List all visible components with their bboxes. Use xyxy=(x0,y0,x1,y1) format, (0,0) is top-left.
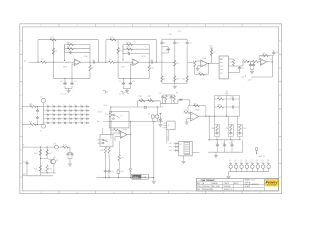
wire feedback top stage2 xyxy=(123,44,149,46)
wire caps to ground stage1 xyxy=(64,86,66,89)
wire R22 down xyxy=(68,146,71,148)
svg-text:Q7: Q7 xyxy=(251,160,253,162)
ground stage1 xyxy=(67,91,71,93)
capacitor C22 right of pots xyxy=(162,95,164,96)
svg-text:ELECTRONICS: ELECTRONICS xyxy=(267,185,276,187)
wire pots rail xyxy=(138,100,161,102)
capacitor C27b left small xyxy=(26,161,28,163)
svg-text:R23: R23 xyxy=(34,153,37,155)
capacitor C18b top right xyxy=(273,50,275,51)
resistor R9 xyxy=(117,48,119,54)
wire right pair1 verticals xyxy=(214,125,216,137)
op-amp U4A xyxy=(120,131,127,138)
svg-text:R40: R40 xyxy=(182,79,185,81)
svg-text:MUTE: MUTE xyxy=(98,112,103,114)
capacitor C33 bank xyxy=(230,144,233,148)
resistor R37 grid row1 xyxy=(218,98,224,100)
net stub lower left xyxy=(22,146,27,148)
wire box risers xyxy=(166,130,168,141)
wire verticals into U6 xyxy=(166,136,168,144)
svg-text:R20: R20 xyxy=(29,104,32,106)
svg-text:REL. 8/4/00: REL. 8/4/00 xyxy=(212,186,220,188)
wire risers to upper network xyxy=(216,137,218,140)
switch SW1 contacts xyxy=(102,139,104,141)
resistor R4 feedback xyxy=(67,43,73,45)
resistor R20 jack1 xyxy=(30,105,36,107)
ground stage2 xyxy=(125,91,129,93)
capacitor C3 decoupling xyxy=(63,82,66,86)
wire EQ out to U2A network xyxy=(187,61,193,63)
resistor R36 pair2 xyxy=(230,125,232,131)
svg-text:R41: R41 xyxy=(244,128,247,130)
diode D2 output xyxy=(129,169,131,171)
capacitor C20 pair b xyxy=(71,152,73,155)
wire right grid top bus xyxy=(215,95,240,97)
svg-text:U1B: U1B xyxy=(142,56,147,58)
wire supply stubs xyxy=(245,75,247,77)
svg-text:← CAB PREAMP: ← CAB PREAMP xyxy=(198,179,215,182)
svg-text:R37: R37 xyxy=(218,96,221,98)
capacitor C1 feedback lower xyxy=(65,52,69,54)
wire noninverting input bias xyxy=(72,63,75,65)
IC U6 outer box xyxy=(179,141,192,156)
wire EQ top bus xyxy=(162,38,187,40)
wire D2 to bottom rail xyxy=(129,171,131,178)
capacitor C31 bank xyxy=(216,144,219,148)
wire EQ mid links xyxy=(162,46,168,48)
op-amp U2A xyxy=(195,60,201,62)
resistor R11 feedback stage2 xyxy=(127,48,133,50)
svg-text:Peavey: Peavey xyxy=(266,180,279,184)
wire LED row bus drop xyxy=(228,172,230,176)
wire cap bank bottom rail xyxy=(208,151,241,153)
svg-text:VR1: VR1 xyxy=(139,96,143,98)
wire into U3A xyxy=(259,61,261,63)
junction stage1 divider xyxy=(53,62,54,63)
wire U5 feedback loop xyxy=(188,106,206,117)
svg-text:C27: C27 xyxy=(23,162,26,164)
connector MAIN OUT label box xyxy=(132,174,149,179)
ground main rail end xyxy=(153,178,155,181)
svg-text:C35: C35 xyxy=(121,171,124,173)
capacitor C29 grid row1 xyxy=(231,97,235,100)
wire EQ input junction xyxy=(154,61,162,63)
wire EQ bottom bus xyxy=(162,83,187,85)
resistor R1 xyxy=(41,61,47,63)
connector J3 circle xyxy=(55,145,59,149)
net flag top riser xyxy=(210,47,213,49)
svg-text:C26: C26 xyxy=(111,171,114,173)
switch SW2 contacts xyxy=(113,114,115,116)
capacitor C32 bank xyxy=(223,144,226,148)
wire J1-J2 vertical link xyxy=(43,107,45,125)
title block row lines xyxy=(196,181,243,183)
capacitor C28 pair2 xyxy=(229,131,232,135)
matrix capacitor array 8x5 xyxy=(47,106,49,108)
wire center second rail xyxy=(110,107,112,112)
svg-text:R16: R16 xyxy=(199,72,202,74)
wire vertical bias divider xyxy=(52,40,54,63)
svg-text:R21: R21 xyxy=(263,53,266,55)
wire right vertical to top rail stage1 xyxy=(97,40,99,63)
svg-text:REV: REV xyxy=(197,183,200,185)
svg-text:Q4: Q4 xyxy=(234,160,236,162)
wire R1 to opamp xyxy=(46,61,74,63)
capacitor C34 pair3 xyxy=(238,131,241,135)
capacitor C4 decoupling xyxy=(70,82,73,86)
svg-text:C31: C31 xyxy=(215,142,218,144)
wire pairs bus xyxy=(166,94,171,96)
wire cap bank verticals top xyxy=(217,140,219,144)
net flag top center xyxy=(121,92,124,94)
capacitor C35 polarized box xyxy=(117,170,120,173)
ground cap bank xyxy=(215,152,217,155)
resistor R21b feedback xyxy=(263,54,269,56)
wire feedback mid stage2 xyxy=(123,48,149,50)
resistor R38 grid row2 xyxy=(218,106,224,108)
wire inner bottom rail xyxy=(40,172,55,174)
connector J2 circle xyxy=(41,124,45,128)
op-amp U5A xyxy=(191,112,199,121)
diode D1 send xyxy=(179,99,182,101)
wire MAIN box to rail xyxy=(148,177,154,179)
wire feedback top branch xyxy=(65,44,90,46)
svg-text:C33: C33 xyxy=(229,142,232,144)
svg-text:FS2: FS2 xyxy=(169,147,172,149)
svg-text:R34: R34 xyxy=(194,103,197,105)
svg-text:FS3: FS3 xyxy=(169,150,172,152)
svg-text:C11: C11 xyxy=(188,43,191,45)
capacitor C12 EQ mid rail1 xyxy=(167,48,170,52)
wire pair join 1 xyxy=(163,94,166,96)
capacitor C8 xyxy=(129,82,132,86)
diode D3 row1 xyxy=(174,143,176,145)
wire output stage1 xyxy=(81,61,93,63)
capacitor C25 center bottom xyxy=(104,170,107,174)
IC A1 inner pins xyxy=(220,58,223,60)
svg-text:R30: R30 xyxy=(100,150,103,152)
resistor R8 top rail stage2 xyxy=(110,39,116,41)
svg-text:4/18/2000: 4/18/2000 xyxy=(203,186,210,188)
resistor R34 feedback top xyxy=(194,105,200,107)
resistor R22 xyxy=(63,146,69,148)
svg-text:+15V: +15V xyxy=(168,34,173,36)
capacitor C26 center bottom b xyxy=(107,170,110,174)
capacitor C16 shunt a xyxy=(250,62,252,64)
title block outer box xyxy=(196,178,278,191)
diode D5 row3 xyxy=(174,149,176,151)
wire bias rail stage1 xyxy=(53,77,90,79)
wire lower-left bottom rail xyxy=(27,175,53,177)
svg-text:4558: 4558 xyxy=(63,67,67,69)
svg-text:Q10: Q10 xyxy=(267,160,270,162)
wire caps branch stage2 xyxy=(123,78,125,82)
wire bias rail stage2 xyxy=(118,77,136,79)
net flag top left of center xyxy=(103,91,106,93)
capacitor C7 xyxy=(122,82,125,86)
wire divider to bias rail stage2 xyxy=(117,62,119,78)
resistor R30 below SW1 xyxy=(104,146,106,147)
wire U2A feedback loop xyxy=(195,64,209,75)
wire top rail stage1 xyxy=(38,39,98,41)
wire top rail stage2 xyxy=(106,39,157,41)
wire U4A out down xyxy=(129,135,131,169)
capacitor C27 pair1 xyxy=(215,131,218,135)
svg-text:J5: J5 xyxy=(168,125,170,127)
wire diode to right xyxy=(182,99,189,101)
resistor R39 EQ bottom rail2 xyxy=(174,76,176,82)
wire long ground rail bottom xyxy=(97,177,154,179)
IC U6 pin bars xyxy=(185,143,189,145)
wire right pair3 verticals xyxy=(236,125,238,137)
wire divider down to bias rail xyxy=(52,62,54,78)
wire bottom return bus xyxy=(252,76,273,78)
wire branch vertical x64.6 xyxy=(64,45,66,53)
resistor R26 right of pots xyxy=(165,96,167,102)
ground EQ bottom xyxy=(174,84,176,86)
wire center top rail xyxy=(111,106,163,108)
net flag LAST arrow xyxy=(256,150,258,153)
svg-text:SW: SW xyxy=(105,140,108,142)
wire U4A inputs xyxy=(111,132,120,134)
svg-text:C9: C9 xyxy=(163,43,165,45)
resistor R28 center vertical xyxy=(110,111,112,117)
mute arrow symbol xyxy=(159,113,161,115)
svg-text:R28: R28 xyxy=(105,114,108,116)
resistor R2 top rail xyxy=(50,39,56,41)
svg-text:LAST FX: LAST FX xyxy=(258,155,266,158)
net flag LAST box xyxy=(256,148,258,151)
resistor R23 xyxy=(39,150,41,156)
resistor R10 feedback stage2 xyxy=(127,43,133,45)
svg-text:C22: C22 xyxy=(159,93,162,95)
svg-text:R39: R39 xyxy=(176,79,179,81)
wire right section top entry xyxy=(189,100,191,106)
capacitor C9 EQ top rail1 xyxy=(161,39,163,41)
junction center xyxy=(110,106,111,107)
resistor R29 into U4 xyxy=(114,129,120,131)
svg-text:R17: R17 xyxy=(213,52,216,54)
capacitor C5 feedback stage2 xyxy=(123,53,127,55)
resistor R14 EQ bottom rail1 xyxy=(161,75,163,78)
wire base link xyxy=(40,157,47,159)
wire feedback join stage2 xyxy=(148,45,150,63)
wire caps join stage2 xyxy=(123,86,125,89)
wire right grid verticals xyxy=(214,96,216,117)
wire left vertical stage2 xyxy=(105,40,107,63)
wire shunt join to ground xyxy=(251,68,254,70)
op-amp U1B xyxy=(133,59,139,66)
wire C18b link xyxy=(272,55,273,57)
wire U2A output xyxy=(207,63,211,65)
resistor R20b series xyxy=(253,60,259,62)
wire cap bank top rail xyxy=(208,139,241,141)
resistor R7 xyxy=(109,61,115,63)
wire A1 right pins xyxy=(228,58,233,60)
svg-text:MAIN: MAIN xyxy=(133,176,139,179)
svg-text:47u 16V: 47u 16V xyxy=(61,94,67,96)
wire noninverting bias stage2 xyxy=(130,63,133,65)
wire cap bank rail to pairs riser xyxy=(242,140,244,153)
svg-text:C29: C29 xyxy=(231,96,234,98)
border frame outer xyxy=(20,24,282,194)
wire right vertical stage2 xyxy=(156,40,158,63)
wire inverting branch up xyxy=(64,45,66,61)
svg-text:J4: J4 xyxy=(148,114,150,116)
border zone ticks left/right xyxy=(20,53,23,55)
capacitor C30 grid row2 xyxy=(231,105,235,108)
capacitor C23 pair2 xyxy=(170,95,172,96)
resistor R5 feedback xyxy=(67,48,73,50)
resistor R25 lower-left second a xyxy=(39,165,41,171)
wire left vertical stage1 xyxy=(37,40,39,63)
svg-text:Q5: Q5 xyxy=(240,160,242,162)
diode D4 row2 xyxy=(174,146,176,148)
wire bottom stub to border xyxy=(22,175,27,177)
wire U3A feedback loop xyxy=(259,56,272,62)
wire J3 to R22 xyxy=(58,146,63,148)
resistor R31 below SW1 b xyxy=(108,146,110,147)
wire caps join lower-left xyxy=(68,152,72,154)
wire center rail risers xyxy=(137,101,139,107)
wire to junction xyxy=(249,61,253,63)
resistor R35 pair1 xyxy=(216,125,218,131)
resistor R18 right of A1 xyxy=(232,60,234,66)
connector J4 ring circle xyxy=(156,115,159,118)
capacitor C6 coupling stage2 xyxy=(150,61,154,64)
wire EQ rail 2 xyxy=(174,47,176,84)
svg-text:DWN: DWN xyxy=(197,186,201,188)
wire pair join 2 xyxy=(171,94,174,96)
wire output stage2 xyxy=(139,61,150,63)
svg-text:Q9: Q9 xyxy=(261,160,263,162)
wire rail links xyxy=(39,173,41,176)
svg-text:R36: R36 xyxy=(225,128,228,130)
svg-text:C10: C10 xyxy=(176,43,179,45)
wire feedback vertical stage2 xyxy=(122,45,124,54)
capacitor C19 pair a xyxy=(67,152,69,155)
IC A1 block box xyxy=(219,56,228,79)
wire EQ rail 3 xyxy=(186,47,188,84)
capacitor C18 matrix left xyxy=(37,115,39,118)
wire to jack J1 xyxy=(35,106,44,108)
capacitor C24 right of J4 xyxy=(159,118,162,122)
wire bias verticals lower-left xyxy=(39,147,41,173)
resistor R6 output load xyxy=(89,62,91,65)
svg-text:J2: J2 xyxy=(40,131,42,133)
capacitor C17 matrix left xyxy=(37,107,39,110)
svg-text:FILE: FILE xyxy=(197,189,200,191)
svg-text:R18: R18 xyxy=(230,62,233,64)
svg-text:R35: R35 xyxy=(212,128,215,130)
wire U5 noninverting xyxy=(187,118,191,120)
resistor R15 into U2A xyxy=(193,61,195,63)
wire U5 output right xyxy=(199,115,240,117)
resistor R16 feedback bottom xyxy=(199,73,205,75)
resistor R26b lower-left second b xyxy=(46,164,48,166)
resistor R12 load stage2 xyxy=(148,62,150,65)
wire U2A out to A1 box xyxy=(212,63,220,65)
border zone ticks top/bottom xyxy=(58,24,60,27)
wire SW1 left stubs xyxy=(98,139,103,141)
resistor R40 EQ bottom rail3 xyxy=(186,76,188,82)
wire matrix row rails xyxy=(44,106,90,108)
wire to jack J2 xyxy=(35,123,44,125)
wire jack1 feed xyxy=(22,106,31,108)
wire EQ rail 1 xyxy=(161,47,163,84)
svg-text:R25: R25 xyxy=(34,169,37,171)
resistor R13 EQ mid rail2 xyxy=(174,60,176,63)
wire R33 to U5 xyxy=(189,112,192,114)
wire U6 bottom to ground xyxy=(183,156,185,161)
svg-text:R38: R38 xyxy=(218,104,221,106)
wire Q1 collector jog xyxy=(54,157,56,159)
wire A1 to U3 stage xyxy=(240,65,244,67)
ground LED row xyxy=(227,176,231,178)
wire U3A output xyxy=(267,61,273,63)
title block column lines xyxy=(243,178,245,191)
resistor R19 U3 input xyxy=(243,60,249,62)
op-amp U3A xyxy=(261,59,267,66)
ground U6 xyxy=(182,161,186,163)
connector ring J6 on rail xyxy=(144,106,146,108)
wire U2A noninverting gnd stub xyxy=(198,65,201,67)
wire vertical divider stage2 xyxy=(117,40,119,63)
wire pair risers xyxy=(214,116,216,124)
svg-text:VR2: VR2 xyxy=(148,96,152,98)
wire U3A output drop xyxy=(271,62,273,77)
svg-text:Q3: Q3 xyxy=(229,160,231,162)
ground U3 shunt xyxy=(250,71,254,73)
capacitor C15 right of A1 xyxy=(234,65,240,67)
svg-text:4558: 4558 xyxy=(121,67,125,69)
capacitor C10 EQ top rail2 xyxy=(174,39,176,41)
border frame inner xyxy=(22,27,278,191)
svg-text:R32: R32 xyxy=(121,157,124,159)
wire feedback second branch xyxy=(65,48,90,50)
resistor R21 jack2 xyxy=(30,123,36,125)
wire stage2 input xyxy=(96,61,108,63)
svg-text:C12: C12 xyxy=(165,50,168,52)
logo Peavey yellow badge xyxy=(265,179,278,186)
svg-text:U1A: U1A xyxy=(84,55,89,58)
wire J4 riser to top rail xyxy=(156,107,158,115)
resistor R17 riser xyxy=(210,50,212,56)
svg-text:R22: R22 xyxy=(63,144,66,146)
wire LED row bottom bus xyxy=(229,171,269,173)
wire feedback join vertical xyxy=(89,45,91,63)
potentiometer VR1 xyxy=(139,100,145,102)
svg-text:Q6: Q6 xyxy=(245,160,247,162)
capacitor C11 EQ top rail3 xyxy=(186,39,188,41)
wire U4A output xyxy=(127,134,130,136)
wire cap bank verticals bottom xyxy=(217,148,219,152)
ground lower-left right xyxy=(68,164,72,166)
ground C24 xyxy=(159,121,161,123)
svg-text:R24: R24 xyxy=(49,153,52,155)
wire left rail center block xyxy=(102,128,104,134)
svg-text:R26: R26 xyxy=(49,169,52,171)
wire R29 wires xyxy=(111,129,114,131)
resistor R41 pair3 xyxy=(239,125,241,131)
svg-text:K1: K1 xyxy=(121,116,123,118)
svg-text:Q8: Q8 xyxy=(256,160,258,162)
wire caps branch stage1 xyxy=(64,78,66,82)
svg-text:U6: U6 xyxy=(180,144,182,146)
wire right pair2 verticals xyxy=(227,125,229,137)
connector J4 tip circle xyxy=(151,115,154,118)
wire jack2 feed xyxy=(22,123,31,125)
